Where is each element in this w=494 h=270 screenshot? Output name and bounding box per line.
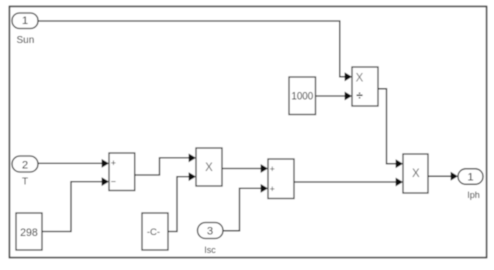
wire sum1 output to product input 1: [135, 158, 190, 175]
wire 1000 to divide input 2: [316, 95, 346, 97]
inport 1 Sun: [12, 13, 38, 46]
wire -C- to product input 2: [168, 177, 189, 232]
svg-text:÷: ÷: [356, 88, 363, 102]
svg-text:298: 298: [20, 227, 38, 239]
wire T to sum1 input 1: [38, 162, 102, 164]
product block P1 (X): [196, 148, 222, 186]
svg-text:1000: 1000: [291, 91, 313, 103]
wire 298 to sum1 input 2: [42, 182, 102, 232]
svg-text:Iph: Iph: [467, 190, 480, 200]
wire product P1 output to sum2 input 1: [222, 168, 261, 170]
constant block 298: [16, 213, 42, 250]
svg-text:Isc: Isc: [204, 245, 216, 255]
product-divide block U1 (X over divide): [352, 67, 378, 106]
svg-text:+: +: [270, 164, 275, 174]
svg-text:2: 2: [22, 159, 28, 171]
wire final product to outport Iph: [428, 175, 451, 177]
outport 1 Iph: [458, 169, 483, 200]
constant block -C-: [142, 213, 168, 250]
svg-text:3: 3: [207, 226, 213, 238]
inport 3 Isc: [198, 223, 224, 256]
sum block S1 (plus minus): [109, 153, 135, 191]
svg-text:+: +: [111, 158, 116, 168]
svg-text:X: X: [412, 168, 420, 180]
svg-text:-C-: -C-: [147, 227, 160, 238]
svg-text:+: +: [270, 184, 275, 194]
product block P2 final (X): [403, 154, 428, 193]
constant block 1000: [289, 77, 316, 115]
svg-text:1: 1: [22, 15, 28, 27]
wire Sun to divide input 1: [38, 21, 345, 77]
wire divide output to final product input 1: [378, 89, 396, 164]
sum block S2 (plus plus): [268, 159, 294, 199]
wire Isc to sum2 input 2: [223, 188, 261, 230]
svg-text:X: X: [205, 162, 213, 174]
svg-text:X: X: [356, 72, 364, 84]
inport 2 T: [12, 156, 38, 188]
svg-text:Sun: Sun: [17, 35, 35, 46]
svg-text:1: 1: [467, 172, 473, 184]
svg-text:T: T: [22, 177, 28, 188]
svg-text:−: −: [111, 177, 116, 187]
wire sum2 output to final product input 2: [294, 181, 396, 183]
